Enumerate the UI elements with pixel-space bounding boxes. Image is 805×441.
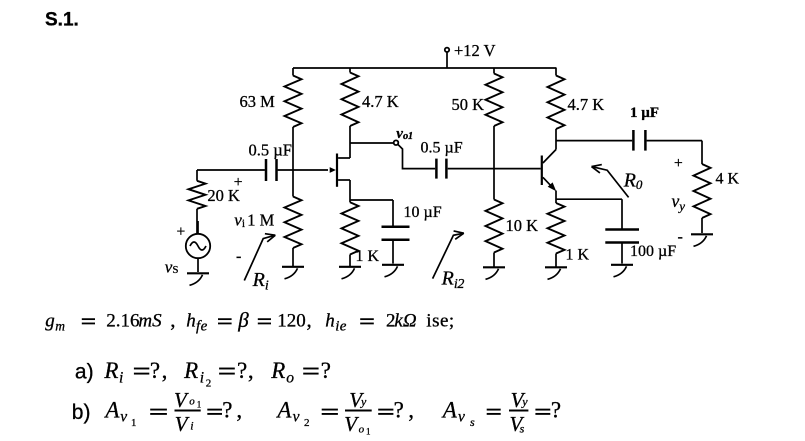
svg-text:i: i	[119, 369, 123, 386]
resistor 4.7K drain stage1	[349, 68, 351, 73]
arrow Ro	[592, 167, 629, 198]
svg-text:A: A	[441, 398, 458, 423]
svg-text:1: 1	[197, 400, 202, 410]
fraction Vy/Vs	[509, 410, 528, 412]
svg-text:50 K: 50 K	[452, 95, 485, 114]
capacitor 100uF	[556, 198, 622, 200]
resistor 50K	[493, 68, 495, 74]
svg-text:vS: vS	[165, 257, 179, 276]
svg-text:?: ?	[222, 398, 232, 423]
svg-text:V: V	[174, 388, 189, 412]
svg-text:ie: ie	[335, 318, 347, 334]
svg-text:h: h	[325, 311, 335, 332]
svg-text:o: o	[286, 369, 294, 386]
fraction Vo1/Vi	[175, 410, 201, 412]
svg-text:ise;: ise;	[426, 311, 454, 332]
svg-text:+: +	[674, 155, 683, 172]
capacitor 0.5uF input	[265, 159, 268, 181]
svg-text:v: v	[293, 409, 300, 426]
svg-text:1 M: 1 M	[247, 210, 274, 229]
svg-text:Ri2: Ri2	[441, 268, 465, 292]
resistor 10K	[493, 169, 495, 200]
fraction Vy/Vo1	[345, 410, 372, 412]
ground 4K	[691, 233, 713, 235]
svg-text:4.7 K: 4.7 K	[568, 95, 605, 114]
svg-text:,: ,	[408, 398, 414, 423]
svg-text:o: o	[359, 424, 365, 436]
svg-text:4 K: 4 K	[716, 171, 740, 188]
svg-text:y: y	[360, 395, 367, 409]
svg-text:V: V	[344, 412, 359, 436]
svg-text:?: ?	[150, 358, 160, 383]
JFET Q1	[336, 154, 338, 187]
svg-text:i: i	[190, 419, 193, 433]
wire input gate line	[197, 169, 265, 171]
svg-text:g: g	[45, 311, 55, 332]
ground 10uF	[382, 264, 404, 266]
resistor 4.7K collector stage2	[555, 68, 557, 76]
svg-text:A: A	[275, 398, 292, 423]
svg-text:+: +	[234, 174, 243, 191]
resistor 63M	[292, 68, 294, 76]
svg-text:63 M: 63 M	[240, 92, 276, 111]
svg-text:m: m	[55, 318, 65, 333]
svg-text:10 µF: 10 µF	[404, 204, 442, 221]
svg-text:1 µF: 1 µF	[630, 105, 659, 121]
svg-text:+: +	[177, 224, 186, 241]
svg-text:0.5 µF: 0.5 µF	[249, 140, 292, 159]
svg-text:+12 V: +12 V	[454, 41, 496, 60]
svg-text:0.5 µF: 0.5 µF	[421, 140, 463, 157]
svg-text:y: y	[521, 395, 528, 409]
resistor 4K load	[701, 141, 703, 164]
arrow Ri	[244, 235, 275, 280]
svg-text:v: v	[120, 409, 127, 426]
svg-text:10 K: 10 K	[506, 216, 539, 235]
svg-text:V: V	[175, 412, 190, 436]
svg-text:S.1.: S.1.	[45, 10, 79, 31]
power rail +12V	[293, 67, 557, 69]
svg-text:Ri: Ri	[252, 269, 269, 294]
svg-text:,: ,	[236, 398, 242, 423]
svg-text:i: i	[200, 369, 204, 386]
BJT Q2	[541, 156, 543, 186]
svg-text:1: 1	[131, 417, 137, 429]
ground VS	[187, 272, 209, 274]
svg-text:-: -	[236, 248, 241, 265]
resistor 1K source stage1	[349, 180, 351, 202]
node vo1	[350, 142, 394, 144]
svg-text:β: β	[237, 308, 249, 332]
svg-text:?: ?	[394, 398, 404, 423]
ground 1K stage2	[545, 266, 567, 268]
ground 1K stage1	[339, 266, 361, 268]
ground 1M	[282, 266, 304, 268]
svg-text:2: 2	[206, 378, 212, 390]
svg-text:kΩ: kΩ	[394, 311, 416, 332]
svg-text:1 K: 1 K	[356, 248, 380, 265]
svg-text:-: -	[678, 229, 683, 246]
svg-text:?: ?	[551, 398, 561, 423]
svg-text:1: 1	[366, 427, 371, 437]
svg-text:R: R	[103, 358, 118, 383]
svg-text:vi: vi	[234, 210, 245, 230]
svg-text:120: 120	[277, 311, 306, 332]
svg-text:R0: R0	[623, 170, 643, 193]
svg-text:vy: vy	[672, 191, 686, 213]
svg-text:v: v	[458, 409, 465, 426]
svg-text:?: ?	[321, 358, 331, 383]
svg-text:h: h	[186, 311, 196, 332]
svg-text:s: s	[470, 415, 475, 429]
svg-text:o: o	[189, 395, 195, 407]
resistor 20K	[196, 170, 198, 181]
svg-text:,: ,	[307, 308, 312, 332]
svg-text:2: 2	[304, 417, 310, 429]
svg-text:mS: mS	[138, 311, 162, 332]
wire base line stage2	[448, 168, 541, 170]
svg-text:4.7 K: 4.7 K	[362, 92, 399, 111]
capacitor 1uF output	[556, 140, 632, 142]
svg-text:R: R	[183, 358, 198, 383]
ground 100uF	[611, 264, 633, 266]
svg-text:,: ,	[248, 358, 254, 383]
svg-text:a): a)	[75, 361, 94, 384]
svg-text:b): b)	[72, 401, 91, 424]
capacitor 10uF bypass	[350, 199, 393, 201]
svg-text:,: ,	[162, 358, 168, 383]
svg-text:A: A	[103, 398, 120, 423]
svg-text:vo1: vo1	[396, 126, 413, 142]
ground 10K	[483, 266, 505, 268]
+12V supply tap	[446, 52, 448, 68]
arrow Ri2	[433, 233, 464, 278]
svg-text:s: s	[520, 422, 525, 436]
svg-text:1 K: 1 K	[566, 247, 590, 264]
resistor 1M	[285, 197, 302, 249]
svg-text:,: ,	[170, 308, 175, 332]
svg-text:100 µF: 100 µF	[630, 243, 676, 260]
svg-text:?: ?	[237, 358, 247, 383]
svg-text:R: R	[270, 358, 285, 383]
svg-text:2.16: 2.16	[106, 311, 139, 332]
capacitor 0.5uF interstage	[435, 159, 438, 179]
svg-text:fe: fe	[196, 318, 208, 334]
source VS	[186, 234, 210, 258]
resistor 1K emitter stage2	[548, 203, 565, 254]
